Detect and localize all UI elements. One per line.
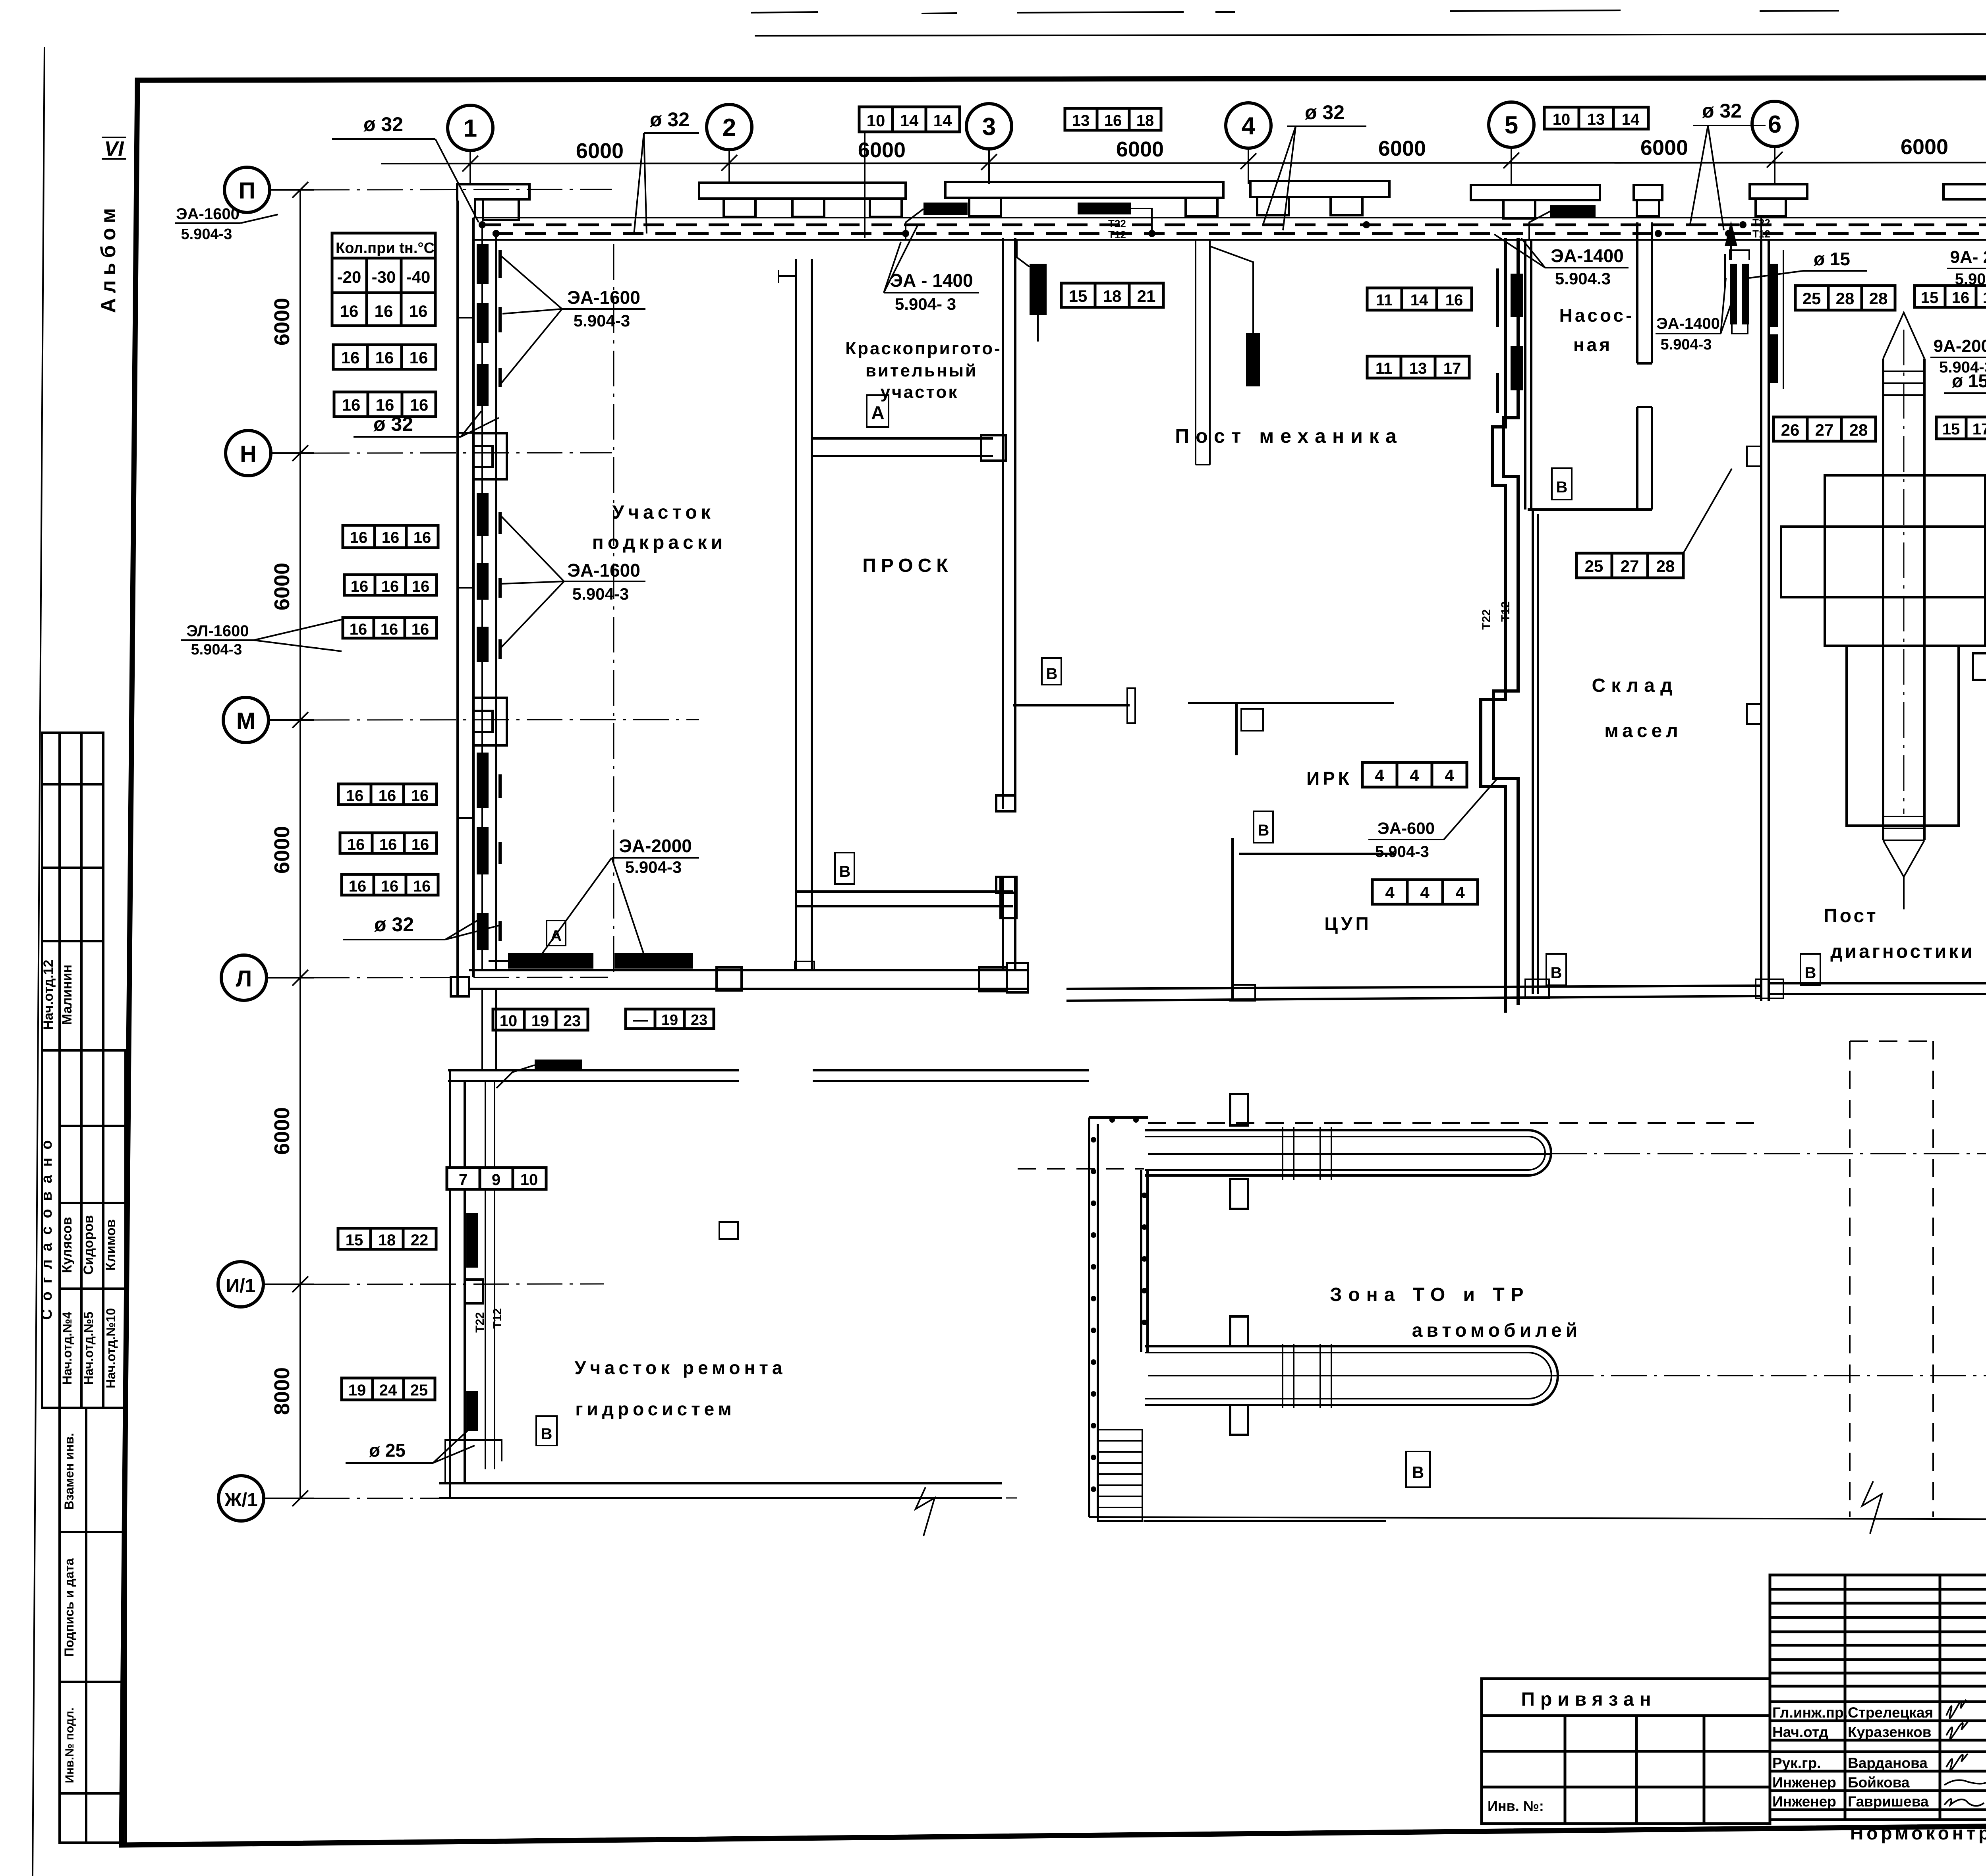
Л wall top bump [795,961,814,970]
tee wall mid partition [1188,702,1394,704]
svg-text:ø 32: ø 32 [363,113,403,135]
svg-text:Т12: Т12 [1108,229,1126,241]
IRK divider wall [1239,853,1396,855]
svg-text:16: 16 [382,529,400,546]
svg-text:ПРОСК: ПРОСК [862,555,952,576]
stairs [1098,1430,1142,1521]
heater on pipe drop [1246,333,1260,386]
table 7-9-10 [447,1168,546,1189]
heater left of nasos wall no2 [1511,346,1523,390]
svg-text:Варданова: Варданова [1848,1755,1928,1771]
svg-text:16: 16 [379,787,396,805]
svg-text:6000: 6000 [270,563,294,610]
svg-text:Взамен инв.: Взамен инв. [62,1433,76,1510]
sheet left edge line [33,47,44,1876]
lane 2 axis [1148,1375,1558,1376]
svg-text:В: В [839,863,851,880]
partition V3 kraskoprig right [1003,238,1015,809]
svg-text:Насос-: Насос- [1559,305,1634,326]
tongue 1 inner cap [1528,1137,1545,1170]
axis line П [270,189,314,191]
svg-text:16: 16 [342,396,361,414]
axis circle 1 [448,105,493,151]
svg-text:3: 3 [982,113,996,141]
svg-text:16: 16 [411,621,429,638]
leader 25-27-28 [1683,469,1732,553]
svg-text:ЭЛ-1600: ЭЛ-1600 [186,622,249,640]
box В prosk bottom [835,853,854,884]
box В sklad bottom [1546,954,1566,985]
svg-text:6000: 6000 [270,298,294,345]
svg-text:16: 16 [350,529,368,546]
stand cross arm vertical upper [1825,475,1985,646]
svg-text:VI: VI [104,137,124,160]
svg-text:16: 16 [381,621,398,638]
svg-text:6000: 6000 [1901,135,1948,159]
table 10-13-14 [1544,107,1648,129]
table 10-14-14 [859,107,960,132]
svg-text:16: 16 [341,348,360,367]
tongue 1 inner top [1145,1136,1528,1137]
tee wall below V3 [1013,704,1130,706]
svg-text:Стрелецкая: Стрелецкая [1848,1704,1933,1721]
svg-text:Инженер: Инженер [1772,1793,1836,1810]
table 15-18-21 [1061,283,1163,307]
svg-text:4: 4 [1455,883,1465,902]
heater bay Н-М no2 [477,563,489,600]
shaft top chevron [1883,313,1924,395]
svg-text:26: 26 [1781,421,1800,439]
svg-text:5.904.3: 5.904.3 [1555,269,1611,288]
svg-text:Нормоконтролер: Нормоконтролер [1850,1823,1986,1843]
svg-text:Нач.отд.№10: Нач.отд.№10 [104,1308,118,1388]
svg-text:10: 10 [520,1171,538,1189]
table 25-27-28 sklad [1576,553,1683,578]
svg-text:Т22: Т22 [473,1312,487,1333]
wall pilaster bump 1 [1747,446,1761,466]
svg-text:Сидоров: Сидоров [81,1215,96,1275]
svg-text:Инв. №:: Инв. №: [1488,1798,1544,1814]
left wall panel joints [458,318,473,818]
plate segment axis 6 [1750,184,1807,216]
shaft bottom tip [1883,816,1924,909]
zigzag pipe riser T22/T12 [1481,238,1518,1013]
tongue 2 inner top [1145,1352,1528,1353]
svg-text:5.904-3: 5.904-3 [191,641,242,658]
svg-text:15: 15 [1942,421,1960,438]
TO zone bottom edge [1089,1517,1986,1519]
svg-text:7: 7 [459,1171,468,1189]
band connection verticals below plates [1017,218,1761,258]
svg-text:Л: Л [236,966,252,992]
svg-text:5.904-3: 5.904-3 [574,311,630,330]
stub above tongue2 [1230,1316,1248,1346]
plate segment axis 7 [1943,184,1986,217]
axis line Н [271,452,314,454]
annex heater top link [496,1065,535,1088]
heater band no1 link [906,209,923,240]
svg-text:Инженер: Инженер [1772,1774,1836,1791]
dots on outer wall [1091,1117,1139,1492]
Л wall pilaster box 2 [979,967,1007,991]
table 16-16-16 b3 [343,618,437,638]
U wall dots [1142,1193,1147,1325]
U connector wall [1141,1170,1148,1352]
break zigzag right [1862,1481,1882,1534]
svg-text:4: 4 [1410,766,1419,785]
box В diag bottom [1801,954,1820,985]
svg-text:ø 32: ø 32 [1702,100,1742,122]
heater drop link [1210,246,1253,333]
svg-text:автомобилей: автомобилей [1412,1320,1582,1341]
svg-text:Гл.инж.пр.: Гл.инж.пр. [1772,1704,1848,1721]
V3 heater feed lines [1017,241,1030,267]
band tap arrow at axis 6 [1725,221,1737,246]
svg-text:13: 13 [1409,360,1427,377]
svg-text:19: 19 [531,1012,549,1030]
svg-text:14: 14 [900,111,919,130]
V3 bottom end box [996,795,1015,811]
H1 end box [981,435,1006,461]
annex bottom wall [439,1483,1002,1498]
axis circle 3 [966,104,1012,149]
strip block C grid [60,1408,126,1843]
svg-text:Участок ремонта: Участок ремонта [575,1357,786,1378]
legend table Кол при tн [332,233,435,326]
box В nasosnaya [1552,468,1572,500]
wall sklad/diagnostics [1761,240,1769,1001]
svg-text:16: 16 [1104,112,1122,129]
heater bay П-Н no2 [477,303,489,343]
Л wall pilaster box 1 [717,967,742,990]
svg-text:Краскопригото-: Краскопригото- [845,339,1002,358]
svg-text:масел: масел [1604,720,1682,741]
heater bay П-Н no3 [477,364,489,406]
axis circle 4 [1226,103,1271,148]
tongue2 crossing pair 2 [1320,1344,1331,1408]
annex heater vert no2 [466,1391,478,1431]
svg-text:5.904- 3: 5.904- 3 [895,295,956,313]
table 13-16-18 [1065,108,1161,130]
svg-text:16: 16 [1445,291,1463,309]
svg-text:Кулясов: Кулясов [60,1217,75,1273]
upper block bottom wall left segment [1066,986,1761,1001]
heater left of nasos wall no1 [1511,274,1523,317]
svg-text:5: 5 [1505,112,1518,139]
tongue 2 inner bottom [1145,1398,1528,1399]
svg-text:6000: 6000 [270,1107,294,1155]
axis circle М [223,697,269,743]
axis circle И/1 [218,1262,263,1307]
svg-text:9А-2000: 9А-2000 [1934,336,1986,356]
heater horizontal on band no1 [923,203,968,215]
svg-text:6000: 6000 [270,826,294,874]
svg-text:ø 15: ø 15 [1814,249,1850,269]
table 11-14-16 [1367,288,1472,310]
axis circle 5 [1489,102,1534,147]
svg-text:ø 32: ø 32 [1305,101,1345,124]
svg-text:Альбом: Альбом [97,203,120,313]
svg-text:27: 27 [1621,557,1639,575]
heater bay Н-М no3 [477,627,489,662]
svg-text:-20: -20 [337,268,361,286]
stamp row1 texts [1772,1704,1986,1810]
stand cross arm horizontal [1781,527,1986,597]
svg-text:Рук.гр.: Рук.гр. [1772,1755,1821,1771]
svg-text:6: 6 [1768,111,1781,138]
plate segment axis 3 [945,182,1223,216]
svg-text:-30: -30 [372,268,396,286]
V3 heater tail line [1037,315,1039,342]
bottom wall pilaster foot 2 [1756,979,1783,998]
svg-text:14: 14 [1622,111,1640,128]
svg-text:ø 25: ø 25 [369,1440,406,1461]
tee wall cap [1127,688,1135,723]
thin element marks beside heaters [498,250,502,941]
svg-text:18: 18 [378,1231,396,1249]
svg-text:9: 9 [492,1171,500,1189]
bottom wall of paint area (Л wall) [469,970,1029,989]
table 16-16-16 c2 [340,833,437,853]
svg-text:15: 15 [1921,289,1939,307]
band pipe Т12 dashed [493,232,1986,235]
heater bay М-Л no2 [477,827,489,874]
svg-text:5.904-3: 5.904-3 [625,858,682,876]
table 25-28-28 [1795,286,1895,310]
svg-text:Пост механика: Пост механика [1175,425,1403,447]
Л wall end box [1007,963,1028,992]
svg-text:17: 17 [1443,360,1461,377]
svg-text:10: 10 [500,1012,518,1030]
diag wall heater pipe [1783,250,1784,389]
V3 lower segment top box [996,877,1015,893]
svg-text:14: 14 [1410,291,1428,309]
stand cross arm vertical lower [1847,646,1959,826]
svg-text:5.904- 3: 5.904- 3 [1955,270,1986,288]
svg-text:Т12: Т12 [1499,601,1512,622]
annex left wall [450,1070,465,1498]
tongue 1 inner bottom [1145,1169,1528,1171]
axis circle Н [226,430,271,476]
strip block A grid [42,733,103,1050]
PARTITION V2 paint/prosk [796,259,812,970]
svg-text:16: 16 [412,578,430,595]
heater on diag wall no2 [1769,334,1778,383]
svg-text:9А- 2000: 9А- 2000 [1950,247,1986,267]
svg-text:Ж/1: Ж/1 [224,1490,257,1511]
svg-text:28: 28 [1656,557,1675,575]
sheet top edge line [755,33,1986,36]
stub above tongue1 [1230,1094,1248,1125]
wall jog at Н [473,433,507,479]
svg-text:Нач.отд.12: Нач.отд.12 [41,960,56,1030]
svg-text:Куразенков: Куразенков [1848,1724,1932,1740]
heater horizontal on band no3 [1550,205,1596,217]
IRK divider stub [1231,838,1234,1001]
axis circle 6 [1752,101,1797,147]
sklad masel left wall [1533,510,1538,994]
heating riser pipes left [482,224,496,969]
plate segment axis 4 [1250,181,1389,215]
band pipe Т22 dashed [481,224,1986,226]
svg-text:Подпись и дата: Подпись и дата [62,1558,76,1657]
riser connection dots [479,221,486,228]
small square in annex [719,1222,738,1239]
svg-text:28: 28 [1869,289,1888,308]
plate segment axis 5 [1471,185,1600,218]
top dimension line [381,162,1986,164]
tongue 2 outer bottom [1145,1404,1528,1406]
tongue 2 outer cap [1528,1346,1558,1405]
table leader vertical line [864,132,865,238]
tongue 2 inner cap [1528,1353,1551,1399]
svg-text:ø 32: ø 32 [650,108,690,131]
band bottom line [473,239,1986,241]
svg-text:ИРК: ИРК [1306,768,1352,789]
annex top wall segment 2 [813,1070,1089,1081]
shaft centerline [1903,330,1905,814]
wall pilaster bump 2 [1747,704,1761,724]
table 10-19-23 [493,1009,588,1030]
svg-text:Инв.№ подл.: Инв.№ подл. [63,1708,76,1783]
svg-text:ЭА-600: ЭА-600 [1377,819,1435,838]
svg-text:16: 16 [375,348,394,367]
svg-text:В: В [541,1425,553,1443]
svg-text:Т22: Т22 [1108,218,1126,230]
annex wall jog at И/1 [465,1280,483,1303]
svg-text:16: 16 [411,836,429,853]
svg-text:Т22: Т22 [1480,609,1493,630]
svg-text:4: 4 [1375,766,1384,785]
box В cup [1254,811,1273,843]
table 16-16-16 a1 [333,345,436,369]
svg-text:ø 32: ø 32 [374,913,414,936]
svg-text:14: 14 [933,111,952,130]
heater on diag wall no1 [1769,264,1778,327]
partition H1 kraskoprig bottom [812,438,993,456]
left wall foot [451,977,469,996]
svg-text:10: 10 [1553,111,1571,128]
heater horizontal Л no2 [614,953,693,969]
band top line [473,217,1986,218]
dashed future rect left [1849,1041,1851,1517]
box В to zone [1406,1451,1430,1487]
annex heater top [535,1060,582,1071]
svg-text:ЭА - 1400: ЭА - 1400 [890,270,973,291]
svg-text:19: 19 [348,1382,366,1399]
corner plate at axis 1 [457,184,529,220]
svg-text:24: 24 [379,1382,397,1399]
dashed future rect top [1850,1040,1933,1042]
table 16-16-16 c3 [342,874,438,895]
svg-text:11: 11 [1376,360,1392,377]
heater horizontal Л no1 [508,953,593,969]
svg-text:ø 32: ø 32 [373,413,413,435]
tongue2 crossing pair 1 [1283,1344,1294,1408]
svg-text:1: 1 [464,115,477,142]
pipe connector to annex [482,989,496,1070]
svg-text:15: 15 [346,1231,363,1249]
nasosnaya right wall piece [1637,407,1652,510]
box А paint room [547,921,566,946]
svg-text:Н: Н [240,441,257,467]
riser dots on band [902,230,909,237]
svg-text:5.904-3: 5.904-3 [1375,843,1429,861]
box В hydro [536,1416,557,1446]
table 19-24-25 [342,1378,435,1400]
axis circle 2 [707,104,752,150]
svg-text:16: 16 [351,578,369,595]
svg-text:19: 19 [661,1012,678,1029]
annex top wall segment 1 [448,1070,739,1081]
svg-text:28: 28 [1836,289,1855,308]
scan artifact dashes top edge [751,10,1986,14]
svg-text:22: 22 [411,1231,429,1249]
left wall double line [458,201,473,996]
svg-text:гидросистем: гидросистем [575,1399,735,1419]
svg-text:Зона ТО и ТР: Зона ТО и ТР [1330,1284,1530,1305]
svg-text:Привязан: Привязан [1521,1689,1656,1710]
IRK corner foot [1229,985,1255,1001]
svg-text:В: В [1556,479,1568,496]
strip block B grid [42,1050,126,1408]
svg-text:4: 4 [1242,112,1256,140]
svg-text:15: 15 [1069,287,1088,305]
svg-text:13: 13 [1587,111,1605,128]
dimension ticks left [292,182,308,1506]
svg-text:6000: 6000 [1378,137,1426,160]
svg-text:ЭА-2000: ЭА-2000 [619,836,692,856]
heater bay М-Л no3 [477,913,489,950]
svg-text:6000: 6000 [1640,136,1688,160]
svg-text:16: 16 [413,529,431,546]
aux dash left lane [1018,1168,1144,1170]
tee mid stub [1235,703,1238,755]
svg-text:23: 23 [691,1012,707,1029]
svg-text:25: 25 [1802,289,1821,308]
svg-text:6000: 6000 [1116,137,1164,161]
svg-text:ЭА-1600: ЭА-1600 [567,287,640,308]
svg-text:В: В [1046,665,1058,683]
prosk bottom wall [796,892,1013,906]
V3 lower segment [1003,878,1015,970]
axis circle П [224,167,270,212]
table 15-18-22 [338,1228,436,1249]
table 26-27-28 [1773,417,1876,441]
tongue 2 outer top [1145,1345,1528,1347]
stand shaft [1883,359,1924,840]
table 16-16-16 b2 [344,575,437,595]
pipe stub near heater pair [1725,250,1749,334]
svg-text:18: 18 [1103,287,1122,305]
svg-text:В: В [1551,964,1562,982]
svg-text:16: 16 [1952,289,1970,307]
table 16-16-16 b1 [343,525,438,548]
stamp signatures scribbles [1944,1700,1986,1806]
svg-text:25: 25 [410,1382,428,1399]
lone pilaster [1634,185,1662,216]
svg-text:—: — [633,1012,648,1029]
axis line Л [267,977,314,979]
table dash-19-23 [626,1009,714,1029]
axis circle Ж/1 [218,1476,264,1521]
stamp privyazan table [1482,1679,1770,1824]
box А kraskoprig [867,395,889,427]
stub below tongue1 [1230,1179,1248,1209]
table 4-4-4 irk [1362,762,1467,787]
svg-text:4: 4 [1420,883,1430,902]
nasosnaya left wall [1525,240,1531,510]
